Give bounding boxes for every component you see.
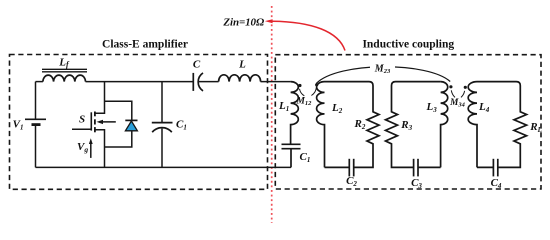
wire top rail Lf to C bbox=[86, 81, 194, 83]
red arrow to Zin node bbox=[265, 19, 345, 50]
coupling dot L3 bbox=[449, 85, 452, 88]
transistor Q1 channel segments bbox=[94, 112, 96, 133]
loop4 top and resistor RL bbox=[477, 82, 527, 168]
loop3 top and resistor R3 bbox=[386, 82, 441, 168]
diode D1 blue triangle bbox=[125, 121, 137, 131]
wire C to L bbox=[199, 81, 219, 83]
svg-text:Zin=10Ω: Zin=10Ω bbox=[222, 16, 265, 28]
diode D1 cathode bar bbox=[125, 119, 137, 121]
inductor Lf coil bbox=[43, 75, 86, 82]
label M23 bbox=[370, 60, 395, 74]
wire L to L1 bbox=[261, 81, 291, 83]
inductor L1 coil bbox=[291, 82, 299, 144]
M12 arc left bbox=[300, 89, 305, 96]
svg-text:Class-E amplifier: Class-E amplifier bbox=[102, 39, 188, 51]
inductor L2 coil and left side bbox=[317, 82, 325, 168]
transistor Q1 gate bar bbox=[90, 112, 92, 130]
coupling dot L2 bbox=[315, 83, 318, 86]
ground rail wire bbox=[36, 166, 292, 168]
coupling dot L4 bbox=[464, 86, 467, 89]
M34 arc right bbox=[461, 91, 465, 98]
svg-text:C: C bbox=[193, 59, 201, 71]
capacitor C1 shunt flat plate bbox=[152, 122, 173, 124]
loop2 top and resistor R2 bbox=[325, 82, 380, 168]
capacitor C1 shunt curved plate bbox=[152, 128, 172, 133]
wire drain to diode bbox=[105, 101, 132, 120]
inductor L3 coil and right side bbox=[441, 82, 448, 168]
transistor Q1 gate lead bbox=[72, 128, 91, 130]
Lf core lines bbox=[42, 68, 87, 70]
battery V1 bbox=[35, 82, 37, 120]
transistor Q1 body arrow bbox=[99, 121, 116, 123]
wire loop2 bottom left bbox=[325, 166, 350, 168]
transistor Q1 source lead bbox=[95, 130, 105, 168]
capacitor C plates bbox=[192, 73, 194, 91]
transistor Q1 drain wire bbox=[95, 82, 105, 114]
wire loop4 bottom left bbox=[477, 166, 493, 168]
Class-E amplifier box bbox=[10, 55, 268, 190]
Inductive coupling box bbox=[275, 55, 541, 189]
coupling dot L1 bbox=[298, 84, 301, 87]
capacitor C4 plates bbox=[492, 159, 494, 177]
wire C1 to ground rail bbox=[290, 149, 292, 168]
capacitor C1 series plates bbox=[282, 143, 301, 145]
wire loop3 bottom right bbox=[418, 166, 441, 168]
M34 arc left bbox=[451, 90, 455, 97]
M12 arc right bbox=[311, 88, 316, 95]
svg-text:L: L bbox=[238, 59, 246, 71]
svg-text:S: S bbox=[79, 113, 85, 125]
Vg arrow shaft bbox=[90, 142, 92, 158]
inductor L4 coil and left side bbox=[468, 82, 477, 168]
red dotted separation line bbox=[271, 6, 273, 223]
svg-text:Inductive coupling: Inductive coupling bbox=[362, 39, 454, 51]
capacitor C2 plates bbox=[348, 159, 350, 177]
capacitor C1 shunt bottom wire bbox=[161, 129, 163, 168]
capacitor C3 plates bbox=[413, 159, 415, 177]
diode D1 bottom wire to source bbox=[105, 131, 132, 147]
capacitor C1 shunt top wire bbox=[161, 82, 163, 123]
inductor L coil bbox=[219, 75, 261, 82]
Vg arrow head bbox=[89, 138, 93, 144]
wire top-left corner to Lf bbox=[36, 81, 43, 83]
coupling arc M23 bbox=[316, 67, 450, 84]
transistor Q1 arrow head bbox=[97, 120, 104, 124]
